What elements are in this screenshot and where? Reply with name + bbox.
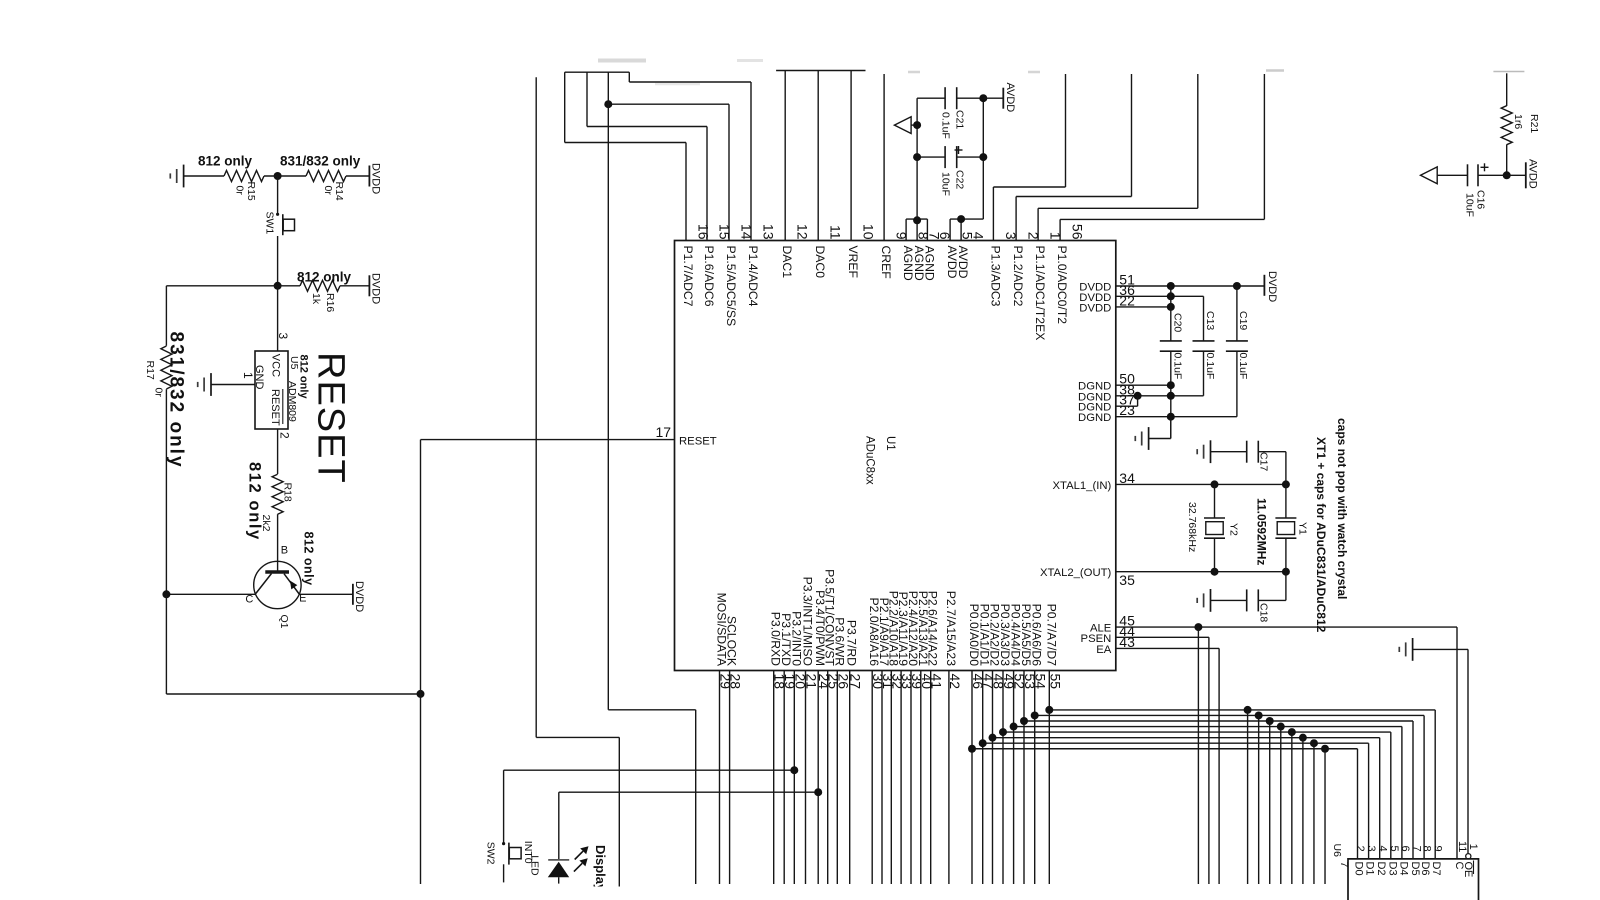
wire P1.3/ADC3 pin 3 route up — [992, 187, 994, 241]
power symbol DVDD right — [1263, 275, 1265, 296]
voltage supervisor U5 ADM809 body — [255, 351, 288, 429]
wire junction to R14 — [264, 175, 306, 177]
svg-text:13: 13 — [761, 224, 777, 240]
junction pin51-C20 — [1167, 282, 1175, 290]
svg-text:812 only: 812 only — [198, 154, 253, 169]
wire DGND to ground — [1170, 417, 1172, 439]
transistor Q1 PNP — [254, 561, 301, 608]
junction AVDD bracket — [957, 215, 965, 223]
svg-text:RESET: RESET — [269, 389, 281, 426]
junction INT0 — [790, 766, 798, 774]
svg-text:14: 14 — [739, 224, 755, 240]
svg-text:5: 5 — [1388, 846, 1400, 852]
svg-text:11: 11 — [1456, 841, 1468, 852]
svg-text:11.0592MHz: 11.0592MHz — [1255, 498, 1269, 565]
wire ALE pin 45 — [1116, 626, 1457, 628]
capacitor C16 10uF polarized — [1437, 174, 1467, 176]
capacitor C20 0.1uF — [1170, 286, 1172, 341]
wire R18 to Q1 base — [277, 514, 279, 572]
wire top rail remnant — [565, 71, 630, 73]
svg-text:0.1uF: 0.1uF — [1237, 353, 1249, 380]
wire AGND net vertical — [916, 98, 918, 219]
junction C21 right — [979, 94, 987, 102]
resistor R16 1k — [300, 280, 340, 291]
svg-text:56: 56 — [1070, 224, 1086, 240]
svg-text:32.768kHz: 32.768kHz — [1186, 502, 1198, 552]
junction pin36-C20 — [1167, 292, 1175, 300]
wire long vertical top to bottom-left jog B — [607, 72, 609, 710]
wire XTAL1_(IN) pin 34 — [1116, 483, 1286, 485]
bus wires P0.0-P0.7 to U6 with junctions — [1049, 709, 1435, 711]
wire bottom of reset loop — [165, 594, 167, 694]
junction pin38-pin37 — [1134, 392, 1142, 400]
svg-text:812 only: 812 only — [298, 355, 310, 400]
wire RESET net pin 17 — [421, 439, 675, 441]
svg-text:RESET: RESET — [310, 352, 352, 484]
wire P1.0/ADC0/T2 pin 56 route up — [1059, 219, 1061, 240]
svg-text:1k: 1k — [310, 293, 322, 305]
wires U1 bottom port pins down to edge — [719, 671, 721, 885]
junction pin51-C19 — [1233, 282, 1241, 290]
wire LED net to pin 24 — [559, 791, 818, 793]
svg-text:Display: Display — [593, 845, 608, 892]
svg-text:7: 7 — [1411, 846, 1423, 852]
svg-text:1: 1 — [241, 372, 255, 379]
svg-text:DVDD: DVDD — [369, 273, 381, 304]
svg-text:XT1 + caps for ADuC831/ADuC812: XT1 + caps for ADuC831/ADuC812 — [1314, 437, 1328, 633]
power symbol DVDD mid left — [368, 275, 370, 296]
svg-text:9: 9 — [894, 232, 910, 240]
svg-text:LED: LED — [529, 855, 541, 876]
wire VREF pin 10 — [850, 71, 852, 241]
svg-text:C18: C18 — [1257, 603, 1269, 622]
wire gnd to R15 — [184, 175, 224, 177]
wire AVDD net vertical — [982, 98, 984, 219]
wire DAC0 pin 11 — [817, 71, 819, 241]
IC U1 ADuC8xx body — [675, 241, 1116, 671]
IC U6 body — [1348, 859, 1479, 900]
svg-text:0r: 0r — [153, 388, 165, 398]
svg-text:0r: 0r — [322, 186, 334, 196]
wire DGND pin 37 — [1116, 405, 1138, 407]
wire P1.6/ADC6 pin 15 — [706, 127, 708, 241]
junction xtal2-Y1-C18 — [1282, 568, 1290, 576]
junction xtal1-Y2 — [1211, 480, 1219, 488]
svg-text:12: 12 — [795, 224, 811, 240]
svg-text:U6: U6 — [1331, 844, 1343, 858]
svg-text:AGND: AGND — [922, 246, 936, 281]
svg-text:VCC: VCC — [270, 354, 282, 377]
wire R14 to DVDD — [346, 175, 369, 177]
svg-text:22: 22 — [1119, 292, 1135, 308]
svg-text:caps not pop with watch crysta: caps not pop with watch crystal — [1335, 418, 1349, 599]
svg-text:35: 35 — [1119, 572, 1135, 588]
svg-text:P1.3/ADC3: P1.3/ADC3 — [988, 246, 1002, 307]
LED diode — [548, 859, 569, 861]
svg-text:P1.0/ADC0/T2: P1.0/ADC0/T2 — [1055, 246, 1069, 325]
ground symbol U5 — [210, 373, 212, 396]
power symbol AVDD top right — [1507, 174, 1526, 176]
svg-text:812 only: 812 only — [246, 462, 264, 541]
svg-text:0r: 0r — [234, 186, 246, 196]
svg-text:SCLOCK: SCLOCK — [725, 616, 739, 666]
svg-text:1: 1 — [1467, 844, 1479, 850]
crystal Y1 11.0592MHz — [1285, 484, 1287, 518]
svg-text:D4: D4 — [1398, 862, 1410, 876]
junction ALE branch — [1194, 623, 1202, 631]
svg-text:27: 27 — [848, 674, 864, 690]
svg-text:VREF: VREF — [846, 246, 860, 279]
resistor R15 0r — [224, 171, 264, 182]
C16 plus sign — [1481, 166, 1489, 168]
svg-text:P1.5/ADC5/SS: P1.5/ADC5/SS — [724, 246, 738, 327]
svg-text:11: 11 — [828, 225, 844, 240]
wire XTAL2_(OUT) pin 35 — [1116, 571, 1286, 573]
power symbol DVDD top left — [368, 166, 370, 187]
svg-text:55: 55 — [1047, 674, 1063, 690]
svg-text:43: 43 — [1119, 634, 1135, 650]
svg-text:P1.6/ADC6: P1.6/ADC6 — [702, 246, 716, 307]
svg-text:EA: EA — [1096, 644, 1112, 656]
wire DVDD pin 22 — [1116, 306, 1171, 308]
svg-text:2: 2 — [278, 432, 292, 439]
svg-text:U1: U1 — [884, 436, 896, 451]
svg-text:P1.4/ADC4: P1.4/ADC4 — [746, 246, 760, 307]
wire ground to U6 OE — [1413, 648, 1468, 650]
svg-text:15: 15 — [717, 224, 733, 240]
svg-text:Y1: Y1 — [1297, 522, 1309, 535]
junction reset loop to RESET net — [417, 690, 425, 698]
wire LED net down — [558, 792, 560, 860]
svg-text:C13: C13 — [1204, 311, 1216, 330]
svg-text:C17: C17 — [1257, 452, 1269, 471]
wire AVDD bracket pins 5 4 — [949, 219, 951, 240]
svg-text:D7: D7 — [1430, 862, 1442, 876]
wire remnant horizontal above DAC pins — [776, 70, 865, 72]
svg-text:P2.7/A15/A23: P2.7/A15/A23 — [944, 591, 958, 666]
wire U5 RESET pin 2 to R18 — [277, 429, 279, 474]
svg-text:SW1: SW1 — [263, 212, 275, 235]
svg-text:P3.7/RD: P3.7/RD — [845, 620, 859, 666]
wire ALE branch down — [1197, 627, 1199, 884]
analog ground symbol AGND triangle — [894, 117, 911, 134]
svg-text:XTAL2_(OUT): XTAL2_(OUT) — [1040, 567, 1112, 579]
wire P1.1/ADC1/T2EX pin 1 route up — [1037, 208, 1039, 240]
svg-text:DVDD: DVDD — [1266, 271, 1278, 302]
capacitor C22 10uF polarized — [917, 156, 945, 158]
svg-text:812 only: 812 only — [297, 270, 352, 285]
resistor R18 2k2 — [272, 474, 283, 514]
svg-text:C: C — [245, 594, 253, 606]
svg-text:CREF: CREF — [879, 246, 893, 279]
svg-text:C22: C22 — [954, 170, 966, 189]
svg-text:2: 2 — [1026, 232, 1042, 240]
wire DVDD pin 36 — [1116, 295, 1204, 297]
junction xtal2-Y2 — [1211, 568, 1219, 576]
svg-text:C16: C16 — [1475, 190, 1487, 209]
junction R14 R15 SW1 — [274, 172, 282, 180]
svg-text:R21: R21 — [1528, 114, 1540, 133]
analog ground symbol for C16 — [1421, 167, 1438, 184]
svg-text:C21: C21 — [954, 110, 966, 129]
wire long vertical top to bottom-left jog A — [535, 77, 537, 737]
svg-text:XTAL1_(IN): XTAL1_(IN) — [1052, 480, 1111, 492]
resistor R21 1r6 — [1506, 73, 1508, 106]
wire U5 VCC pin 3 — [277, 286, 279, 351]
svg-text:SW2: SW2 — [485, 842, 497, 865]
svg-text:R17: R17 — [144, 361, 156, 380]
svg-text:C19: C19 — [1237, 311, 1249, 330]
junction SW1 R16 R17 U5 — [274, 282, 282, 290]
junction pin38-C20 — [1167, 392, 1175, 400]
wire CREF pin 9 — [883, 74, 885, 241]
wire junction down to SW1 — [277, 176, 279, 214]
wire P1.7/ADC7 pin 16 — [685, 143, 687, 241]
svg-text:AVDD: AVDD — [956, 246, 970, 279]
wire P1.4/ADC4 pin 13 — [750, 82, 752, 241]
svg-text:6: 6 — [1399, 846, 1411, 852]
svg-text:OE: OE — [1462, 862, 1474, 878]
wire left branch to R17 — [166, 285, 277, 287]
svg-text:AVDD: AVDD — [1526, 159, 1538, 189]
pushbutton SW1 — [276, 213, 279, 216]
junction R17 Q1 collector — [162, 590, 170, 598]
capacitor C17 — [1285, 452, 1287, 485]
svg-text:0.1uF: 0.1uF — [940, 112, 952, 139]
svg-text:17: 17 — [656, 424, 672, 440]
junction R21 C16 AVDD node — [1503, 171, 1511, 179]
junction LED net — [814, 788, 822, 796]
wire INT0 net to pin 20 — [504, 769, 795, 771]
svg-text:DVDD: DVDD — [369, 163, 381, 194]
svg-text:Y2: Y2 — [1228, 523, 1240, 536]
pushbutton SW2 — [502, 842, 505, 845]
wire U5 GND pin 1 — [211, 384, 255, 386]
svg-text:DVDD: DVDD — [1079, 302, 1111, 314]
svg-text:10: 10 — [861, 224, 877, 240]
svg-text:2: 2 — [1354, 846, 1366, 852]
junction pin22-C20 — [1167, 303, 1175, 311]
svg-text:28: 28 — [728, 674, 744, 690]
svg-text:ADuC8xx: ADuC8xx — [864, 436, 876, 485]
svg-text:54: 54 — [1033, 674, 1049, 690]
svg-text:P0.7/A7/D7: P0.7/A7/D7 — [1044, 604, 1058, 667]
junction pin50-C20 — [1167, 381, 1175, 389]
svg-text:41: 41 — [929, 674, 945, 690]
U6 pin 1 OE with bubble — [1466, 854, 1471, 859]
junction C22 left — [913, 153, 921, 161]
wire PSEN pin 44 — [1116, 636, 1209, 638]
svg-text:DVDD: DVDD — [353, 581, 365, 612]
svg-text:P3.3/INT1/MISO: P3.3/INT1/MISO — [801, 577, 815, 666]
wire Q1 collector — [166, 593, 255, 595]
svg-text:6: 6 — [937, 232, 953, 240]
svg-text:ADM809: ADM809 — [286, 381, 298, 422]
junction pin23-C20 — [1167, 413, 1175, 421]
svg-text:B: B — [281, 545, 288, 557]
svg-text:812 only: 812 only — [302, 532, 316, 586]
svg-text:P3.6/WR: P3.6/WR — [832, 617, 846, 666]
svg-text:1: 1 — [1048, 232, 1064, 240]
wire junction to R16 — [278, 285, 300, 287]
svg-text:R16: R16 — [324, 293, 336, 312]
svg-text:RESET: RESET — [679, 436, 717, 448]
junction pin14 net on long vertical — [604, 100, 612, 108]
svg-text:D1: D1 — [1364, 862, 1376, 876]
wire DVDD pin 51 — [1116, 285, 1265, 287]
wire DAC1 pin 12 — [784, 71, 786, 241]
svg-text:34: 34 — [1119, 470, 1135, 486]
svg-text:R15: R15 — [245, 182, 257, 201]
wire AGND bracket pins 8 7 6 — [905, 219, 907, 240]
svg-text:3: 3 — [276, 333, 290, 340]
wire R16 to DVDD — [340, 285, 369, 287]
svg-text:D6: D6 — [1419, 862, 1431, 876]
wire DGND pin 23 — [1116, 416, 1237, 418]
svg-text:P1.7/ADC7: P1.7/ADC7 — [681, 246, 695, 307]
svg-text:0.1uF: 0.1uF — [1204, 353, 1216, 380]
svg-text:831/832 only: 831/832 only — [280, 154, 361, 169]
svg-text:4: 4 — [971, 232, 987, 240]
svg-text:C20: C20 — [1171, 313, 1183, 332]
svg-text:3: 3 — [1003, 232, 1019, 240]
capacitor C21 0.1uF — [917, 97, 945, 99]
wire P1.2/ADC2 pin 2 route up — [1015, 197, 1017, 241]
junction AGND bracket — [913, 216, 921, 224]
capacitor C13 0.1uF — [1193, 340, 1215, 342]
power symbol DVDD at Q1 — [352, 584, 354, 605]
power symbol AVDD near C21 — [983, 97, 1003, 99]
resistor R14 0r — [306, 171, 346, 182]
svg-text:16: 16 — [696, 224, 712, 240]
wire INT0 down to SW2 — [503, 770, 505, 843]
svg-text:0.1uF: 0.1uF — [1171, 353, 1183, 380]
svg-text:DAC0: DAC0 — [813, 246, 827, 279]
svg-text:10uF: 10uF — [940, 172, 952, 196]
svg-text:9: 9 — [1432, 846, 1444, 852]
svg-text:1r6: 1r6 — [1512, 114, 1524, 129]
wire P1.5/ADC5/SS pin 14 — [728, 104, 730, 240]
svg-text:10uF: 10uF — [1464, 193, 1476, 217]
ground symbol top left — [183, 165, 185, 188]
LED arrows — [575, 851, 583, 859]
svg-text:P1.2/ADC2: P1.2/ADC2 — [1011, 246, 1025, 307]
svg-text:R18: R18 — [282, 483, 294, 502]
svg-text:D2: D2 — [1375, 862, 1387, 876]
svg-text:P2.6/A14/A22: P2.6/A14/A22 — [926, 591, 940, 666]
svg-text:4: 4 — [1376, 846, 1388, 852]
wire EA pin 43 — [1116, 647, 1219, 649]
svg-text:D0: D0 — [1353, 862, 1365, 876]
svg-text:42: 42 — [947, 674, 963, 690]
svg-text:831/832 only: 831/832 only — [166, 332, 187, 469]
svg-text:P0.6/A6/D6: P0.6/A6/D6 — [1030, 604, 1044, 667]
svg-text:DAC1: DAC1 — [780, 246, 794, 279]
svg-text:23: 23 — [1119, 402, 1135, 418]
svg-text:D5: D5 — [1409, 862, 1421, 876]
wire Q1 emitter to DVDD — [299, 593, 353, 595]
junction xtal1-Y1-C17 — [1282, 480, 1290, 488]
ground symbol DGND rail — [1148, 427, 1150, 450]
svg-text:D3: D3 — [1386, 862, 1398, 876]
ground symbol for C18 — [1210, 589, 1212, 612]
wire DGND pin 38 — [1116, 395, 1204, 397]
faint crop remnant marks top — [598, 59, 646, 63]
ground symbol for U6 OE — [1412, 638, 1414, 661]
svg-text:Q1: Q1 — [278, 615, 290, 629]
junction AGND triangle — [913, 121, 921, 129]
crystal Y2 32.768kHz — [1214, 484, 1216, 518]
white crop band at bottom — [540, 887, 680, 900]
wire DGND pin 50 — [1116, 384, 1171, 386]
svg-text:P1.1/ADC1/T2EX: P1.1/ADC1/T2EX — [1033, 246, 1047, 341]
svg-text:AVDD: AVDD — [1004, 83, 1016, 113]
junction C22 right — [979, 153, 987, 161]
svg-text:7: 7 — [1338, 862, 1350, 868]
ground symbol for C17 — [1210, 440, 1212, 463]
capacitor C18 — [1285, 572, 1287, 601]
svg-text:DGND: DGND — [1078, 412, 1111, 424]
capacitor C19 0.1uF — [1236, 286, 1238, 341]
svg-text:8: 8 — [1421, 846, 1433, 852]
svg-text:3: 3 — [1365, 846, 1377, 852]
resistor R17 0r — [165, 286, 167, 346]
C22 plus sign — [955, 149, 963, 151]
